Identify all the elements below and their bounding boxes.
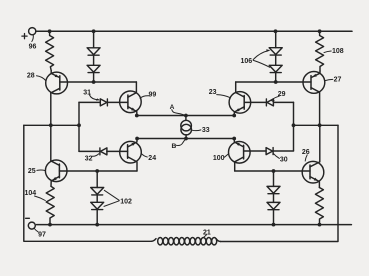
transistor Q28 (PNP) bbox=[46, 71, 68, 94]
wire: diode 32 row bbox=[79, 150, 128, 152]
svg-text:B: B bbox=[172, 143, 177, 150]
resistor 104 bbox=[46, 186, 54, 224]
svg-text:108: 108 bbox=[332, 48, 344, 55]
svg-text:99: 99 bbox=[149, 91, 157, 98]
label 31 bbox=[83, 90, 100, 101]
junction dot bbox=[232, 137, 236, 141]
svg-text:23: 23 bbox=[209, 89, 217, 96]
diode stack upper-left (two diodes from +rail to base node) bbox=[87, 31, 100, 82]
svg-text:97: 97 bbox=[38, 231, 46, 238]
wire: node B line bbox=[137, 138, 234, 140]
svg-text:28: 28 bbox=[27, 72, 35, 79]
transistor Q100 (NPN) bbox=[229, 139, 251, 172]
label 29 bbox=[271, 91, 286, 103]
label 99 bbox=[140, 91, 156, 98]
label 27 bbox=[325, 76, 341, 83]
wire: diode 31 row bbox=[79, 101, 128, 103]
label 24 bbox=[142, 154, 157, 162]
diode 31 bbox=[100, 99, 107, 106]
junction dot bbox=[95, 169, 99, 173]
transistor Q25 (NPN) bbox=[45, 125, 67, 186]
svg-text:100: 100 bbox=[213, 155, 225, 162]
svg-text:21: 21 bbox=[203, 229, 211, 236]
label 106 bbox=[241, 49, 271, 67]
wire: collector Q28 down bbox=[50, 93, 52, 125]
junction dot bbox=[184, 137, 188, 141]
junction dot bbox=[274, 29, 278, 33]
label 25 bbox=[28, 168, 45, 175]
label 102 bbox=[104, 190, 132, 206]
wire: bottom supply rail bbox=[36, 224, 351, 226]
diode stack 106 bbox=[269, 31, 282, 82]
junction dot: rail / resistor bbox=[48, 29, 52, 33]
transistor Q27 (PNP) bbox=[303, 71, 325, 125]
junction dot bbox=[292, 123, 296, 127]
label 23 bbox=[209, 89, 231, 98]
resistor (unlabeled, collector load of Q28) bbox=[46, 31, 54, 70]
svg-text:27: 27 bbox=[334, 76, 342, 83]
node B label bbox=[172, 139, 186, 150]
junction dot bbox=[272, 169, 276, 173]
junction dot bbox=[318, 223, 322, 227]
wire: left bias vertical bbox=[78, 102, 80, 151]
wire: output loop bottom right and right edge bbox=[221, 125, 339, 241]
wire: right bias vertical bbox=[293, 102, 295, 150]
label 28 bbox=[27, 72, 46, 80]
diode 29 bbox=[266, 99, 273, 106]
wire: base-26 / collector-100 row bbox=[235, 170, 310, 172]
diode stack 102 bbox=[91, 171, 104, 225]
wire: base line Q23 to diode 29 bbox=[244, 101, 293, 103]
junction dot bbox=[232, 114, 236, 118]
junction dot bbox=[272, 223, 276, 227]
wire: left junction row bbox=[24, 124, 79, 126]
junction dot bbox=[135, 114, 139, 118]
resistor 108 bbox=[316, 31, 324, 71]
junction dot bbox=[274, 80, 278, 84]
svg-text:30: 30 bbox=[280, 156, 288, 163]
junction dot: diode stack bottom on base-28 line bbox=[92, 80, 96, 84]
current source 33 (interlocked circles) bbox=[181, 116, 192, 139]
diode stack right-lower (unlabeled) bbox=[267, 171, 280, 225]
wire: output loop left edge and bottom bbox=[24, 125, 152, 241]
wire: top supply rail bbox=[36, 30, 352, 32]
label 108 bbox=[324, 48, 344, 55]
diode 30 bbox=[266, 148, 273, 155]
junction dot bbox=[318, 29, 322, 33]
svg-text:25: 25 bbox=[28, 168, 36, 175]
junction dot bbox=[95, 223, 99, 227]
svg-text:26: 26 bbox=[302, 149, 310, 156]
label 100 bbox=[213, 154, 229, 163]
svg-text:102: 102 bbox=[120, 198, 132, 205]
transistor Q24 (NPN) bbox=[120, 139, 142, 172]
label 104 bbox=[25, 190, 46, 201]
wire: right junction row bbox=[294, 124, 339, 126]
transistor Q99 (NPN) bbox=[120, 82, 142, 116]
svg-text:106: 106 bbox=[241, 58, 253, 65]
wire: base-25 / collector-24 row bbox=[59, 170, 137, 172]
wire: base line Q28 / node to diode stack and Q99 collector bbox=[60, 81, 137, 83]
transistor Q23 (NPN) bbox=[229, 82, 251, 116]
label 26 bbox=[302, 149, 310, 161]
resistor (emitter of Q26, unlabeled) bbox=[315, 188, 323, 225]
junction dot bbox=[77, 123, 81, 127]
junction dot bbox=[318, 123, 322, 127]
label 33 bbox=[192, 127, 210, 134]
junction dot bbox=[184, 114, 188, 118]
inductor 21 (load) bbox=[152, 238, 221, 245]
label 30 bbox=[273, 153, 287, 163]
svg-text:24: 24 bbox=[148, 155, 156, 162]
label 32 bbox=[85, 154, 99, 163]
label 21 bbox=[203, 229, 211, 237]
svg-text:32: 32 bbox=[85, 156, 93, 163]
terminal 97 (-) bbox=[26, 218, 46, 238]
terminal 96 (+) bbox=[22, 28, 37, 51]
diode 32 bbox=[100, 148, 107, 155]
junction dot bbox=[135, 137, 139, 141]
svg-text:33: 33 bbox=[202, 127, 210, 134]
wire: base line Q100 to diode 30 bbox=[244, 150, 294, 152]
junction dot bbox=[48, 223, 52, 227]
wire: base-27 row / collector-23 bbox=[236, 81, 311, 83]
junction dot: rail / left diode stack bbox=[92, 29, 96, 33]
wire: node A line bbox=[137, 115, 234, 117]
node A label bbox=[170, 104, 185, 115]
junction dot bbox=[49, 123, 53, 127]
transistor Q26 (NPN) bbox=[302, 125, 324, 187]
svg-text:96: 96 bbox=[29, 43, 37, 50]
